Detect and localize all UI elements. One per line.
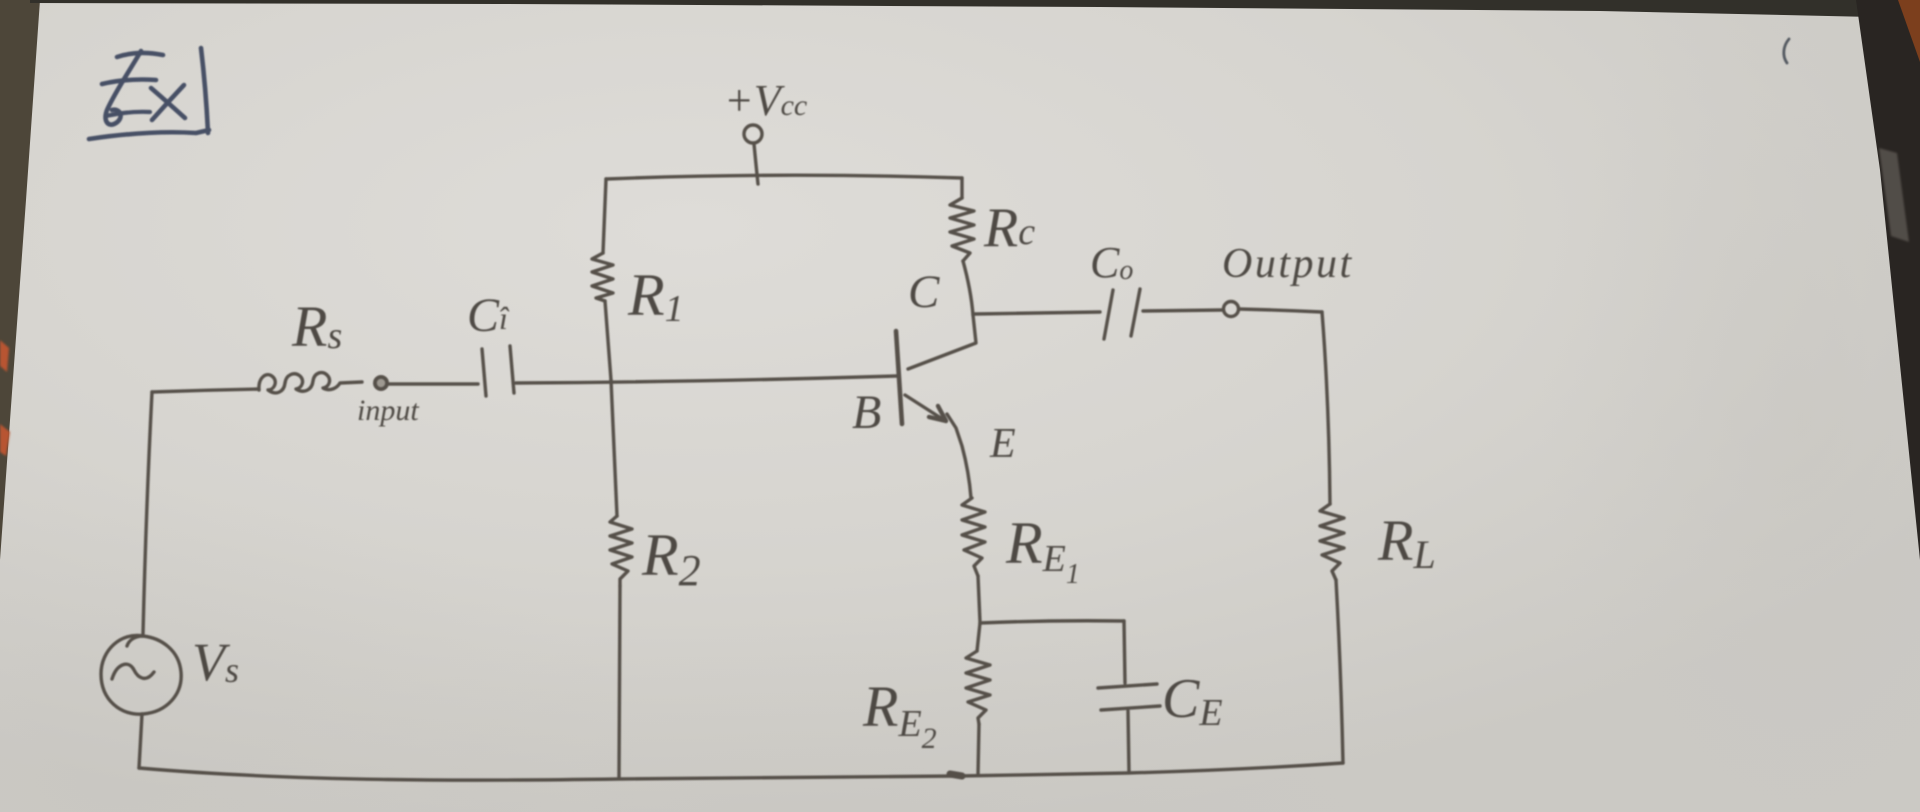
Ex label E main stem with bottom loop <box>106 51 141 125</box>
wire: R2 to ground rail <box>619 586 620 778</box>
table: orange-brown sliver top-right corner <box>1898 0 1920 62</box>
power +Vcc terminal circle <box>744 125 762 143</box>
table surface: thin dark strip along top edge <box>30 0 1920 18</box>
wire: Ci to base (through R1 node) <box>516 376 897 383</box>
Ex label E middle bar <box>102 80 156 85</box>
capacitor CE bottom plate <box>1101 706 1160 710</box>
wire: top rail down to R1 <box>603 179 606 253</box>
wire: RL to ground rail <box>1336 580 1343 763</box>
svg-text:B: B <box>852 386 881 439</box>
table: grey smudge on right wedge <box>1879 148 1909 242</box>
resistor Rs (scribbled coil) <box>259 373 362 393</box>
table surface: dark olive band at top-left edge <box>0 0 40 560</box>
power +Vcc stem to rail <box>754 144 758 184</box>
stray pen mark top right <box>1784 39 1789 63</box>
node: output terminal circle <box>1224 302 1239 317</box>
wire: Vs bottom to ground corner <box>139 714 142 768</box>
wire: CE branch vertical from junction <box>1124 621 1125 683</box>
transistor Q1 emitter with arrow <box>905 395 944 420</box>
resistor RL (zigzag) <box>1320 504 1344 580</box>
junction: RE2 at ground rail <box>950 774 962 776</box>
resistor Rc (zigzag) <box>950 198 974 261</box>
node: input terminal dot <box>375 377 387 389</box>
wire: collector node down to transistor <box>908 315 976 369</box>
wire: Co to output terminal <box>1143 310 1222 311</box>
svg-text:input: input <box>357 394 419 427</box>
resistor R2 (zigzag) <box>610 516 632 586</box>
wire: left vertical from input corner down to Vs <box>143 392 152 634</box>
wire: RE2 to ground rail <box>978 724 979 775</box>
wire: top rail down to Rc <box>960 178 963 198</box>
node: emitter divider junction to CE <box>980 621 1124 623</box>
svg-text:E: E <box>989 421 1016 467</box>
wire: collector node to Co <box>974 312 1100 314</box>
Ex label x stroke 2 <box>152 85 184 120</box>
resistor RE2 (zigzag) <box>966 651 990 724</box>
Ex label underline <box>89 130 209 139</box>
source Vs (circle) <box>101 635 181 714</box>
wire: Rc to collector node <box>963 261 973 315</box>
wire: node down to R2 <box>611 380 617 516</box>
wire: dot to Ci <box>389 382 478 385</box>
wire: junction down to RE2 <box>977 623 980 651</box>
Ex label x stroke 1 <box>151 88 185 118</box>
capacitor Ci right plate <box>510 346 514 393</box>
wire: RE1 to junction node <box>978 576 980 622</box>
Ex label (blue ink) E stroke top <box>117 53 163 57</box>
wire: bottom ground rail <box>139 763 1343 780</box>
capacitor Co right plate <box>1131 289 1140 336</box>
wire: R1 to input-line node <box>605 301 611 380</box>
red mark 2 on left table band <box>0 424 10 456</box>
paper shading right side <box>1540 0 1920 812</box>
wire: output terminal to RL corner <box>1239 309 1322 312</box>
wire: top rail from R1 to Rc <box>606 175 962 179</box>
resistor R1 (zigzag) <box>592 253 613 301</box>
Ex label E lower bar <box>106 112 150 116</box>
table surface: dark wedge along right edge <box>1856 0 1920 560</box>
wire: emitter to RE1 <box>947 414 971 498</box>
capacitor Ci left plate <box>482 349 486 396</box>
paper shading bottom-center <box>120 620 1520 812</box>
transistor Q1 base bar <box>896 331 902 424</box>
transistor Q1 emitter arrowhead <box>929 406 946 421</box>
wire: RL vertical top <box>1322 312 1330 504</box>
svg-text:C: C <box>908 266 940 318</box>
wire: input line from source corner to Rs <box>152 389 259 392</box>
capacitor Co left plate <box>1104 290 1113 339</box>
red mark 1 on left table band <box>0 340 9 372</box>
Ex label right vertical bar <box>201 48 208 133</box>
svg-text:Output: Output <box>1222 241 1354 287</box>
paper shading bottom-left corner <box>0 480 640 812</box>
capacitor CE top plate <box>1098 684 1157 688</box>
wire: CE to ground rail <box>1128 711 1129 772</box>
source Vs sine tilde <box>112 664 154 679</box>
resistor RE1 (zigzag) <box>962 498 985 576</box>
